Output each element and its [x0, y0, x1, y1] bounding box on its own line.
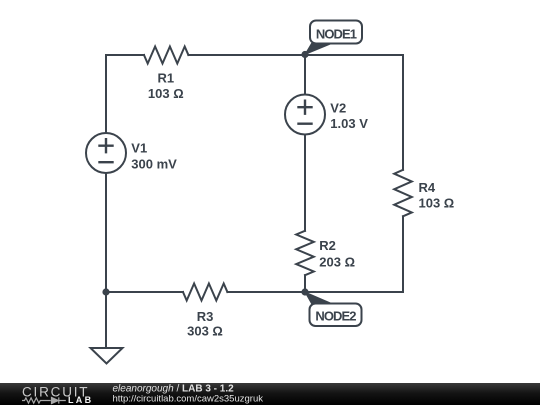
wire middle vertical (R2 to NODE2) [304, 275, 306, 292]
resistor R1 [144, 47, 188, 64]
svg-text:103 Ω: 103 Ω [148, 86, 184, 101]
svg-text:1.03 V: 1.03 V [330, 116, 368, 131]
svg-text:V1: V1 [131, 141, 147, 156]
svg-text:300 mV: 300 mV [131, 157, 177, 172]
svg-text:103 Ω: 103 Ω [419, 196, 455, 211]
node label NODE1 pointer [305, 44, 332, 55]
node junction dot NODE1 [301, 51, 308, 58]
svg-text:LAB: LAB [68, 395, 93, 405]
svg-text:V2: V2 [330, 101, 346, 116]
svg-text:203 Ω: 203 Ω [319, 255, 355, 270]
node label NODE2 pointer [305, 292, 332, 304]
wire middle vertical (V2 to R2) [304, 135, 306, 231]
node label NODE2 box [310, 304, 362, 327]
resistor R3 [183, 284, 227, 301]
wire top-left vertical (V1 top to top rail) [105, 55, 107, 133]
voltage source V2 [285, 95, 325, 135]
svg-text:NODE2: NODE2 [315, 308, 356, 323]
ground [91, 348, 123, 364]
svg-text:R2: R2 [319, 238, 336, 253]
resistor R2 [296, 231, 314, 275]
svg-text:R1: R1 [157, 71, 174, 86]
svg-text:NODE1: NODE1 [316, 26, 357, 41]
wire bottom rail right segment [227, 291, 403, 293]
wire top rail left segment [106, 54, 144, 56]
wire right vertical upper (to R4) [402, 55, 404, 170]
svg-text:R3: R3 [197, 309, 214, 324]
svg-text:303 Ω: 303 Ω [187, 324, 223, 339]
svg-text:http://circuitlab.com/caw2s35u: http://circuitlab.com/caw2s35uzgruk [113, 394, 264, 405]
wire right vertical lower (R4 to bottom rail) [402, 216, 404, 292]
voltage source V1 [86, 133, 126, 173]
wire bottom rail left segment [106, 291, 183, 293]
footer bar [0, 383, 540, 405]
wire left vertical (V1 bottom to bottom rail) [105, 173, 107, 292]
wire ground stem [105, 292, 107, 348]
wire middle vertical (NODE1 to V2) [304, 55, 306, 95]
wire top rail right segment [188, 54, 403, 56]
junction dot bottom-left [102, 288, 109, 295]
footer logo resistor-diode glyph [22, 397, 66, 403]
node junction dot NODE2 [301, 288, 308, 295]
svg-text:R4: R4 [419, 180, 436, 195]
resistor R4 [394, 170, 412, 217]
node label NODE1 box [310, 21, 362, 44]
